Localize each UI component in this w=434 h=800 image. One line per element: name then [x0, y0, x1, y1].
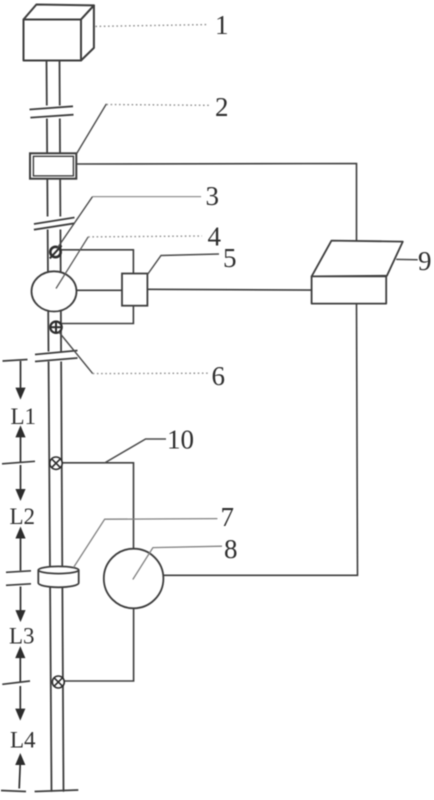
- svg-text:8: 8: [224, 534, 238, 564]
- svg-text:2: 2: [215, 92, 229, 122]
- svg-text:L1: L1: [11, 404, 37, 429]
- svg-text:6: 6: [212, 361, 226, 391]
- svg-text:L3: L3: [9, 624, 35, 649]
- svg-text:10: 10: [167, 425, 194, 455]
- svg-text:3: 3: [206, 181, 220, 211]
- svg-text:L4: L4: [10, 728, 36, 753]
- svg-text:5: 5: [223, 243, 237, 273]
- svg-text:4: 4: [208, 222, 222, 252]
- svg-text:L2: L2: [10, 504, 36, 529]
- svg-text:7: 7: [221, 502, 235, 532]
- svg-text:9: 9: [418, 246, 432, 276]
- svg-text:1: 1: [215, 10, 229, 40]
